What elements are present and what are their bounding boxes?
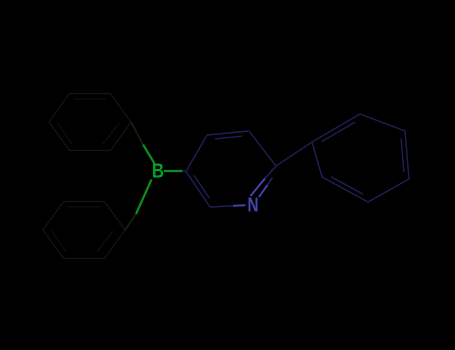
svg-text:B: B (152, 161, 164, 183)
ring phenyl upper-left inner double bonds (faint) (57, 99, 119, 144)
ring pyridine: C2=C3 double inner (194, 175, 209, 198)
bond N=C6 inner (blue half) (259, 185, 268, 197)
wire bond B-mesityl2 (dark half) (125, 214, 136, 230)
bond C6-phenyl ipso (276, 142, 312, 166)
wire bond B-mesityl1 (green half, up-left) (143, 145, 155, 164)
ring phenyl right (navy) (312, 114, 409, 202)
ring phenyl lower-left (faint) (43, 202, 125, 259)
ring phenyl upper-left (faint) (49, 94, 131, 151)
ring pyridine: C5-C6 single (249, 131, 276, 166)
ring phenyl right inner double bond V3=V4 (401, 139, 404, 173)
ring pyridine: C3-C4 single (186, 135, 207, 172)
bond N-C2 (navy half) (210, 206, 233, 207)
wire bond B-C3 pyridine (dark half) (182, 170, 186, 173)
wire bond B-C3 pyridine (green half, right) (164, 170, 183, 172)
bond N=C6 inner (navy half) (268, 178, 273, 186)
bond N-C2 (blue half) (233, 204, 246, 207)
bond N=C6 main (blue half, N side) (251, 179, 266, 197)
ring pyridine: C4=C5 double inner (215, 136, 242, 139)
bond N=C6 main (navy half, C6 side) (265, 166, 276, 179)
ring phenyl lower-left inner double bonds (faint) (51, 207, 113, 252)
ring phenyl right inner double bond V5=V6 (331, 177, 363, 194)
svg-text:N: N (248, 195, 259, 217)
wire bond B-mesityl1 (dark half) (131, 122, 143, 145)
ring pyridine: C2=C3 double main (186, 172, 210, 208)
ring phenyl right inner double bond V1=V2 (322, 122, 356, 142)
wire bond B-mesityl2 (green half, down-left) (136, 180, 152, 215)
ring pyridine: C4=C5 double main (207, 131, 249, 135)
